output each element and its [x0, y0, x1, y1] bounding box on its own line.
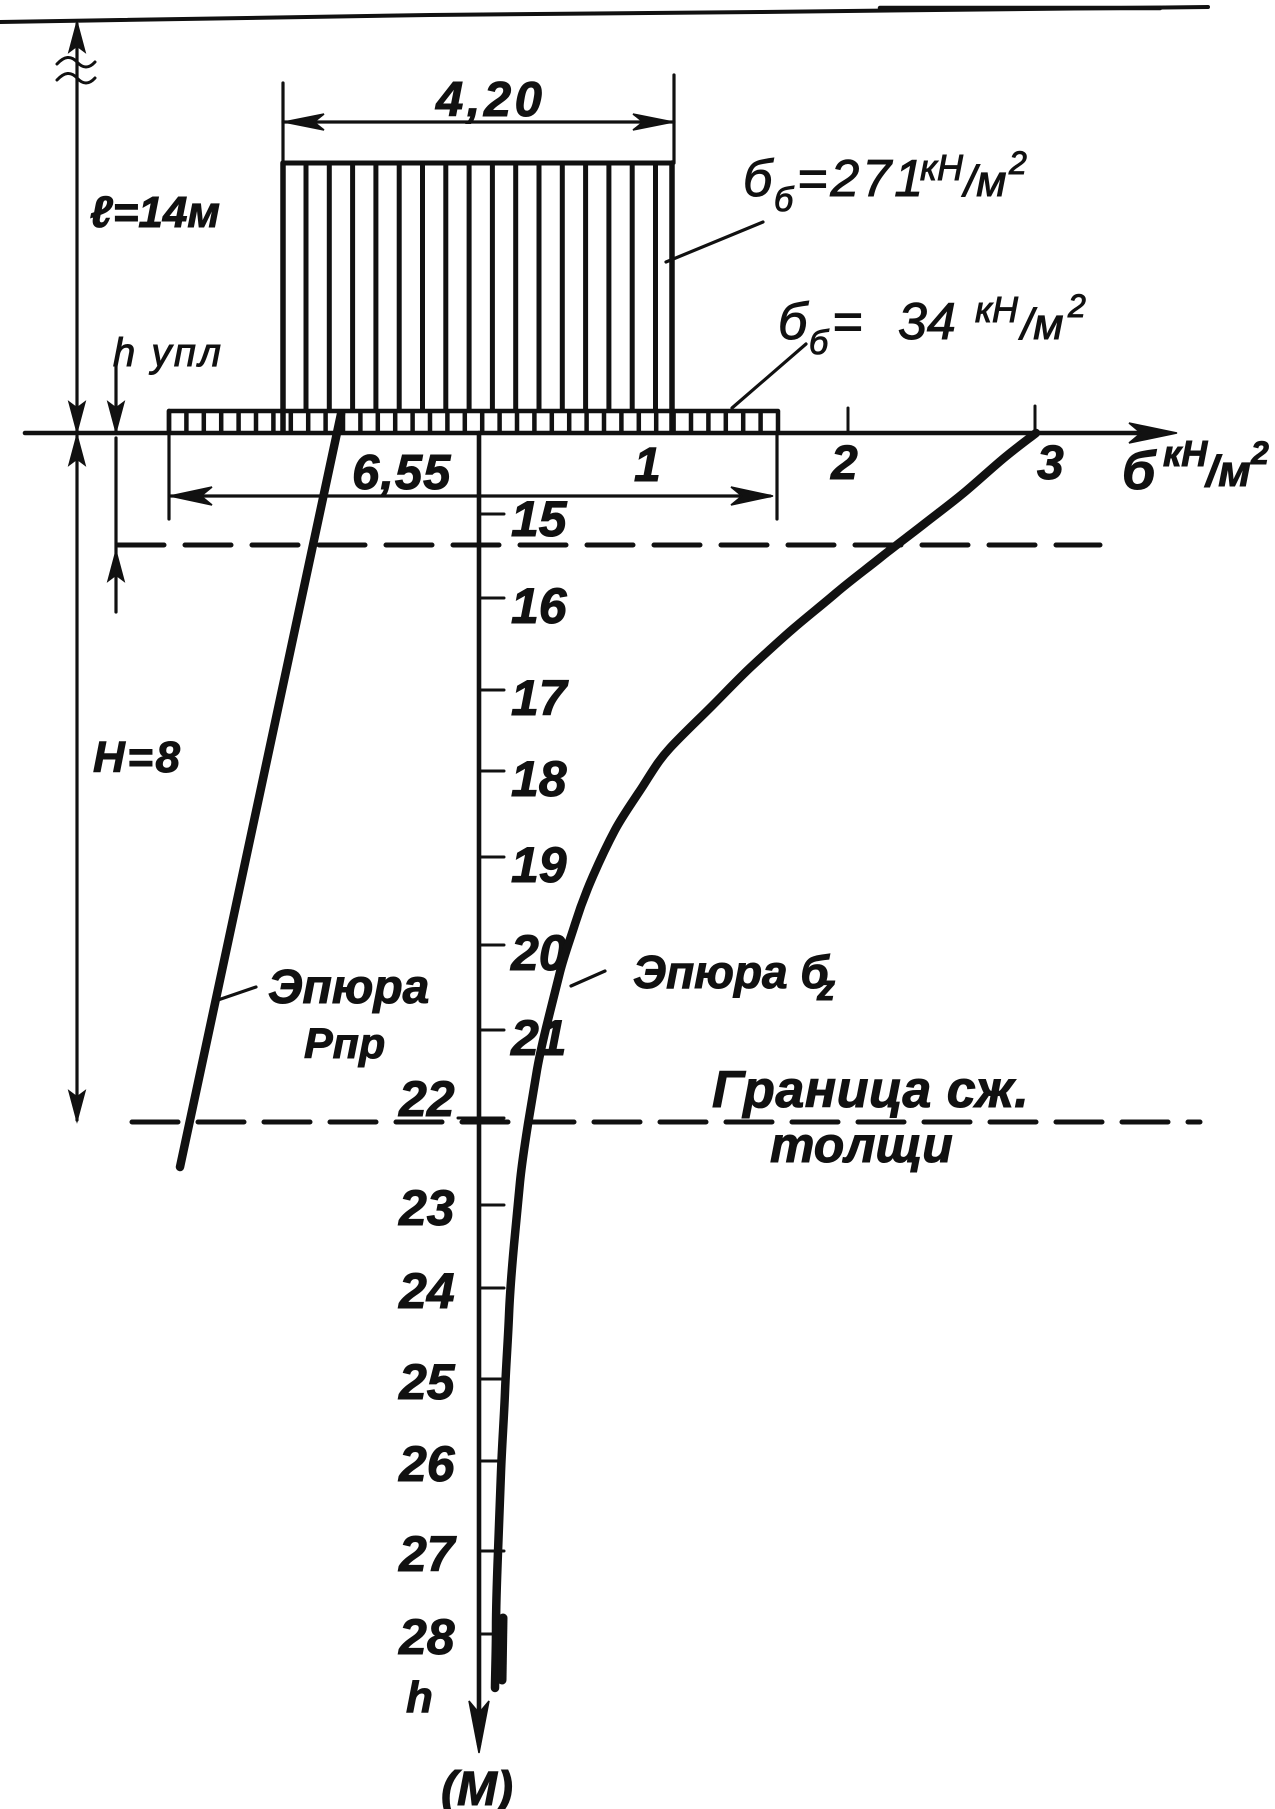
svg-text:24: 24	[398, 1263, 455, 1319]
load block hatching	[306, 164, 656, 410]
sigma_z curve thick lower end	[502, 1618, 503, 1680]
foundation slab top line	[169, 409, 778, 414]
leader to load label	[666, 222, 763, 262]
dimension H=8 bottom arrowhead	[69, 1091, 85, 1121]
svg-text:/м: /м	[1018, 300, 1063, 349]
svg-text:18: 18	[511, 751, 567, 807]
ground surface line (top)	[0, 7, 1208, 22]
svg-text:кН: кН	[1163, 433, 1208, 474]
svg-text:2: 2	[1008, 145, 1027, 181]
sigma_z curve	[495, 433, 1036, 1688]
svg-text:Рпр: Рпр	[304, 1020, 385, 1068]
svg-text:17: 17	[511, 670, 569, 726]
depth labels left side	[398, 1071, 457, 1665]
depth ticks	[458, 514, 504, 1634]
svg-text:16: 16	[511, 578, 568, 634]
ground surface line overlap stroke	[880, 6, 1160, 11]
svg-text:h упл: h упл	[113, 331, 223, 375]
dimension 6,55 left extension line	[167, 434, 170, 519]
axis tick 3	[1034, 406, 1037, 432]
depth labels right side	[510, 491, 569, 1066]
dimension l=14m top arrowhead	[69, 22, 85, 52]
svg-text:б: б	[1122, 441, 1157, 501]
svg-text:Эпюра б: Эпюра б	[633, 946, 830, 998]
label sigma_b = 271	[743, 145, 1027, 219]
svg-text:28: 28	[398, 1609, 455, 1665]
svg-text:кН: кН	[920, 147, 964, 188]
svg-text:z: z	[816, 967, 835, 1008]
dimension 4,20 left arrowhead	[284, 114, 324, 130]
dimension 4,20 right extension line	[672, 75, 675, 163]
label sigma_b = 34	[778, 288, 1086, 362]
svg-text:б: б	[743, 150, 774, 208]
dimension 6,55 right arrowhead	[731, 487, 773, 505]
svg-text:(М): (М)	[441, 1763, 513, 1809]
svg-text:23: 23	[398, 1180, 455, 1236]
svg-text:=271: =271	[797, 150, 926, 208]
svg-text:34: 34	[898, 293, 956, 351]
svg-text:h: h	[406, 1673, 433, 1722]
horizontal axis arrowhead	[1129, 423, 1177, 443]
dimension 6,55 line	[171, 494, 770, 497]
svg-text:19: 19	[511, 837, 567, 893]
svg-text:1: 1	[634, 439, 661, 492]
svg-text:27: 27	[398, 1526, 457, 1582]
svg-text:ℓ=14м: ℓ=14м	[90, 188, 220, 237]
svg-text:б: б	[809, 324, 830, 362]
dimension h_upl lower arrowhead	[108, 551, 124, 581]
Ppr line	[180, 414, 341, 1167]
leader to slab label	[732, 344, 806, 408]
svg-text:Эпюра: Эпюра	[268, 961, 429, 1014]
foundation slab left edge	[167, 411, 172, 433]
svg-text:15: 15	[511, 491, 568, 547]
dimension h_upl lower line	[114, 438, 117, 612]
leader to Ppr label	[218, 987, 256, 1000]
leader to sigma_z label	[571, 971, 605, 986]
svg-text:=: =	[832, 293, 862, 351]
svg-text:22: 22	[398, 1071, 455, 1127]
foundation slab hatching	[169, 412, 778, 432]
axis tick 2	[847, 408, 850, 432]
dimension l=14m vertical line	[75, 24, 78, 431]
svg-text:26: 26	[398, 1436, 456, 1492]
svg-text:6,55: 6,55	[352, 446, 451, 500]
load block top line	[283, 161, 672, 166]
dashed line compressible boundary	[132, 1120, 1200, 1125]
vertical axis (depth)	[477, 433, 482, 1744]
svg-text:/м: /м	[961, 157, 1006, 206]
dimension h_upl upper arrow line	[114, 366, 117, 431]
svg-text:Граница сж.: Граница сж.	[712, 1061, 1029, 1119]
svg-text:2: 2	[1250, 435, 1269, 471]
svg-text:б: б	[774, 181, 795, 219]
svg-text:2: 2	[1067, 288, 1086, 324]
svg-text:2: 2	[830, 437, 858, 490]
horizontal axis (ground line)	[25, 431, 1160, 436]
dimension break symbol	[57, 57, 95, 67]
load block right edge	[669, 163, 675, 432]
svg-text:3: 3	[1037, 437, 1064, 490]
dimension break symbol 2	[57, 73, 95, 83]
svg-text:/м: /м	[1204, 447, 1251, 496]
dimension h_upl upper arrowhead	[108, 402, 124, 432]
dimension H=8 top arrowhead	[69, 435, 85, 465]
dimension 6,55 right extension line	[775, 434, 778, 519]
load block left edge	[280, 163, 286, 432]
dimension H=8 vertical line	[75, 436, 78, 1120]
svg-text:кН: кН	[975, 289, 1019, 330]
dashed line h_upl depth	[118, 543, 1100, 548]
dimension 6,55 left arrowhead	[170, 487, 212, 505]
svg-text:б: б	[778, 293, 809, 351]
dimension 4,20 left extension line	[281, 83, 284, 163]
svg-text:H=8: H=8	[93, 733, 182, 782]
svg-text:4,20: 4,20	[435, 73, 545, 127]
svg-text:толщи: толщи	[770, 1117, 953, 1173]
dimension 4,20 line	[283, 120, 674, 123]
vertical axis arrowhead	[469, 1701, 489, 1753]
svg-text:25: 25	[398, 1354, 456, 1410]
dimension 4,20 right arrowhead	[633, 114, 673, 130]
dimension l=14m bottom arrowhead	[69, 402, 85, 432]
